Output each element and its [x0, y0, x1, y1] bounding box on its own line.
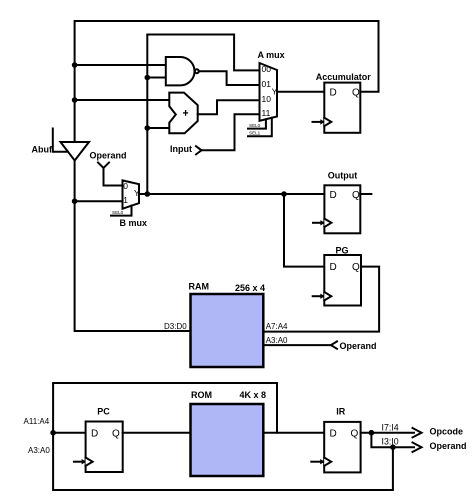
svg-text:00: 00: [262, 64, 272, 74]
node: junction branch/adder input: [145, 125, 151, 131]
wire: RAM A3:A0 to Operand: [263, 344, 331, 346]
wire: NAND top input: [75, 64, 166, 66]
wire: PC D input stub: [53, 432, 86, 434]
svg-text:A11:A4: A11:A4: [24, 417, 50, 426]
svg-text:PG: PG: [336, 246, 349, 256]
svg-text:256 x 4: 256 x 4: [235, 283, 265, 293]
node: junction bus/adder input: [72, 97, 78, 103]
svg-text:IR: IR: [336, 406, 346, 416]
svg-text:Q: Q: [351, 428, 359, 439]
svg-text:SEL0: SEL0: [249, 123, 261, 128]
wire: IR Q to Opcode arrow: [361, 432, 414, 434]
svg-text:SEL0: SEL0: [112, 210, 124, 215]
svg-text:11: 11: [262, 108, 271, 118]
svg-text:Y: Y: [272, 87, 278, 97]
svg-text:I7:I4: I7:I4: [382, 423, 399, 433]
wire: PG Q output down to RAM A7:A4: [263, 267, 379, 332]
symbol: IR clock stub and chevron: [311, 458, 331, 466]
svg-text:B mux: B mux: [120, 218, 148, 228]
wire: B mux Y output to Output register D: [139, 193, 324, 195]
symbol: Output clock stub and chevron: [313, 219, 331, 227]
node: junction Output D / PG branch: [281, 191, 287, 197]
svg-text:SEL1: SEL1: [249, 131, 261, 136]
gate: NAND body: [166, 57, 195, 85]
connector: Opcode output arrow: [413, 428, 422, 437]
mux: A mux body: [260, 63, 278, 121]
memory: RAM box: [191, 294, 264, 367]
svg-text:D: D: [330, 262, 337, 273]
svg-text:D: D: [330, 190, 337, 201]
register: PC box: [86, 422, 123, 473]
node: junction I3:I0 / feedback loop: [390, 444, 396, 450]
svg-text:Q: Q: [352, 262, 360, 273]
wire: Output Q stub: [360, 193, 371, 195]
wire: ROM data out to IR D: [263, 432, 324, 434]
svg-text:Q: Q: [112, 428, 120, 439]
connector: Input chevron: [196, 146, 202, 154]
svg-text:1: 1: [123, 195, 128, 205]
node: junction IR Q branch: [369, 430, 375, 436]
svg-text:01: 01: [262, 79, 272, 89]
wire: adder output to A mux 10 input: [198, 100, 260, 114]
svg-text:A3:A0: A3:A0: [266, 336, 288, 345]
gate: adder body: [169, 93, 197, 134]
wire: A mux SEL0 stub: [248, 119, 266, 128]
wire: bus to B mux input 1: [75, 200, 123, 202]
register: PG box: [324, 255, 361, 306]
symbol: Accumulator clock stub and chevron: [313, 118, 332, 126]
wire: B mux branch with NAND/adder taps up to A mux 00 input: [147, 35, 259, 194]
svg-text:A7:A4: A7:A4: [266, 322, 288, 331]
svg-text:Operand: Operand: [430, 441, 467, 451]
svg-text:D: D: [330, 88, 337, 99]
node: junction B mux Y / branch vertical: [145, 191, 151, 197]
wire: adder top input: [75, 99, 170, 101]
register: Accumulator box: [324, 83, 360, 133]
connector: Operand chevron at RAM: [331, 341, 337, 348]
node: junction branch/NAND input: [145, 75, 151, 81]
svg-text:Y: Y: [134, 188, 140, 198]
wire: bottom loop IR operand feedback to PC D and ROM out: [53, 383, 393, 490]
svg-text:Output: Output: [328, 171, 358, 181]
symbol: PG clock stub and chevron: [313, 292, 332, 300]
memory: ROM box: [191, 404, 264, 476]
mux: B mux body: [123, 180, 140, 208]
svg-text:A3:A0: A3:A0: [28, 446, 50, 455]
wire: accumulator feedback top loop: [75, 21, 379, 142]
wire: B mux SEL0 stub: [111, 206, 132, 216]
wire: Operand to B mux input 0: [104, 168, 123, 186]
wire: A mux Y output to Accumulator D: [277, 91, 324, 93]
wire: Input to A mux 11 input: [202, 114, 260, 150]
register: IR box: [324, 422, 360, 473]
buffer: Abuf tri-state triangle: [61, 142, 90, 161]
svg-text:RAM: RAM: [189, 282, 210, 292]
connector: Operand output arrow: [413, 443, 422, 452]
svg-text:Q: Q: [352, 88, 360, 99]
wire: NAND bottom input: [147, 77, 166, 79]
node: junction loop/PC D: [50, 430, 56, 436]
register: Output box: [324, 185, 360, 233]
svg-text:Operand: Operand: [90, 150, 127, 160]
svg-text:D3:D0: D3:D0: [164, 322, 187, 331]
wire: branch down to PG D input: [284, 194, 324, 267]
wire: PC Q to ROM address: [123, 432, 191, 434]
wire: feedback bus left vertical below Abuf to RAM D3:D0: [75, 161, 191, 332]
svg-text:0: 0: [123, 181, 128, 191]
node: junction bus/NAND input: [72, 62, 78, 68]
svg-text:I3:I0: I3:I0: [382, 437, 399, 447]
wire: NAND output to A mux 01 input: [199, 71, 260, 85]
svg-text:10: 10: [262, 94, 272, 104]
svg-text:Operand: Operand: [340, 341, 377, 351]
svg-text:Input: Input: [170, 144, 192, 154]
wire: adder bottom input: [147, 127, 169, 129]
symbol: PC clock stub and chevron: [74, 458, 93, 466]
svg-text:Accumulator: Accumulator: [316, 72, 372, 82]
symbol: adder plus sign: [184, 111, 188, 115]
svg-text:Opcode: Opcode: [430, 426, 464, 436]
gate: NAND output bubble: [195, 69, 199, 73]
connector: Operand chevron above B mux: [98, 163, 109, 169]
wire: IR Q branch down to I3:I0 row: [371, 433, 414, 448]
svg-text:D: D: [330, 428, 337, 439]
svg-text:ROM: ROM: [191, 390, 212, 400]
wire: Abuf enable stub: [53, 129, 68, 152]
wire: A mux SEL1 stub: [248, 118, 272, 137]
svg-text:4K x 8: 4K x 8: [240, 390, 267, 400]
svg-text:PC: PC: [97, 407, 110, 417]
svg-text:Q: Q: [352, 190, 360, 201]
svg-text:Abuf: Abuf: [32, 145, 53, 155]
svg-text:D: D: [91, 428, 98, 439]
svg-text:A mux: A mux: [258, 50, 285, 60]
node: junction bus/B mux input 1: [72, 198, 78, 204]
